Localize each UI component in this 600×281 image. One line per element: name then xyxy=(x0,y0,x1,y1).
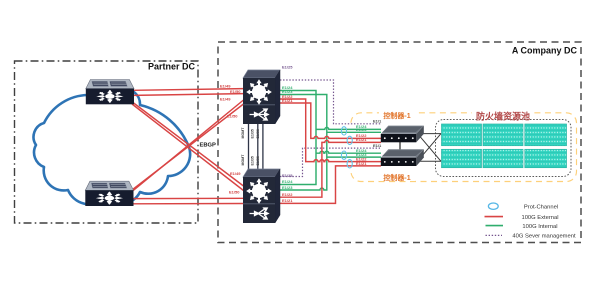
firewall pool dotted box xyxy=(436,120,572,177)
EBGP red diagonal: partner top switch to central bottom switch (line 1) xyxy=(129,100,244,187)
svg-text:MGMT: MGMT xyxy=(241,127,245,139)
svg-text:Partner DC: Partner DC xyxy=(148,62,196,72)
port labels near central top switch left xyxy=(220,84,241,195)
svg-text:控制器-1: 控制器-1 xyxy=(383,111,410,120)
svg-text:40G Sever management: 40G Sever management xyxy=(512,234,576,240)
port-channel oval on top green pair xyxy=(341,127,346,135)
svg-text:E1/49: E1/49 xyxy=(220,84,231,89)
trunk rotated labels xyxy=(241,127,260,166)
green internal trunk 1: both switches, vpc pair A xyxy=(280,91,316,185)
red external line: top switch to controller-1 upper xyxy=(280,103,381,138)
controller-2 icon xyxy=(381,149,424,166)
central bottom switch U2 xyxy=(243,169,280,223)
svg-text:100G Internal: 100G Internal xyxy=(522,224,557,230)
legend red line xyxy=(485,216,504,218)
svg-text:E1/21: E1/21 xyxy=(356,161,367,166)
svg-text:Prot-Channel: Prot-Channel xyxy=(524,204,558,210)
green branch to controller-1 (1) xyxy=(316,127,381,129)
red external line: bottom switch to controller-2 lower xyxy=(280,166,381,204)
server block row2 col3 xyxy=(525,149,567,167)
svg-text:E1/50: E1/50 xyxy=(229,190,240,195)
red external line: bottom switch to controller-1 lower xyxy=(280,140,381,197)
EBGP red link: partner bottom switch to central bottom switch (line 2) xyxy=(133,203,244,205)
port-channel oval on top red pair xyxy=(347,136,352,144)
svg-text:E1/25: E1/25 xyxy=(282,173,293,178)
pool link: controller-2 to row2 xyxy=(418,160,442,162)
green branch to controller-2 (1) xyxy=(316,151,381,153)
purple mgmt line: bottom switch to controller-2 xyxy=(280,148,380,176)
svg-text:E1/50: E1/50 xyxy=(227,114,238,119)
trunk link 1 between central switches xyxy=(248,124,250,170)
svg-text:E1/50: E1/50 xyxy=(230,89,241,94)
svg-text:MGMT: MGMT xyxy=(241,154,245,166)
svg-text:E1/35: E1/35 xyxy=(251,129,255,138)
trunk link 3 between central switches xyxy=(262,124,264,170)
EBGP red link: partner top switch to central top switch (line 2) xyxy=(133,94,244,96)
EBGP red diagonal: partner bottom switch to central top switch (line 1) xyxy=(129,100,244,194)
EBGP red diagonal: partner top switch to central bottom switch (line 2) xyxy=(132,104,244,191)
svg-text:E1/23: E1/23 xyxy=(282,185,293,190)
EBGP red diagonal: partner bottom switch to central top switch (line 2) xyxy=(132,104,244,190)
pool link: controller-1 to row2 xyxy=(418,134,442,162)
server block row1 col3 xyxy=(525,124,567,146)
cloud xyxy=(34,87,191,205)
svg-text:E1/1: E1/1 xyxy=(373,143,382,148)
server block row1 col2 xyxy=(483,124,523,146)
orange pool boundary xyxy=(351,113,577,182)
svg-text:EBGP: EBGP xyxy=(200,142,217,148)
port-channel oval on bottom red pair xyxy=(347,160,352,168)
port labels near controllers xyxy=(356,119,382,166)
svg-text:E1/23: E1/23 xyxy=(356,127,367,132)
EBGP red link: partner top switch to central top switch (line 1) xyxy=(133,89,244,91)
svg-text:E1/24: E1/24 xyxy=(282,179,293,184)
svg-text:E1/35: E1/35 xyxy=(251,156,255,165)
svg-text:E1/36: E1/36 xyxy=(256,156,260,165)
svg-text:E1/21: E1/21 xyxy=(356,137,367,142)
EBGP red link: partner bottom switch to central bottom switch (line 1) xyxy=(133,197,244,199)
svg-text:防火墙资源池: 防火墙资源池 xyxy=(476,111,530,122)
white gap behind pool title xyxy=(472,108,534,119)
central top switch U1 xyxy=(243,70,280,124)
legend purple dotted line xyxy=(486,234,503,236)
svg-text:控制器-1: 控制器-1 xyxy=(383,173,410,182)
server block row1 col1 xyxy=(442,124,482,146)
controller-2 label xyxy=(379,173,415,182)
controller-1 label xyxy=(379,111,415,120)
trunk link 2 between central switches xyxy=(257,124,259,170)
svg-text:E1/25: E1/25 xyxy=(282,65,293,70)
svg-text:E1/49: E1/49 xyxy=(220,97,231,102)
svg-text:E1/22: E1/22 xyxy=(282,192,293,197)
pool link: controller-2 to row1 xyxy=(418,134,442,162)
svg-text:A Company DC: A Company DC xyxy=(512,46,578,56)
legend green line xyxy=(486,225,504,227)
green branch to controller-1 (2) xyxy=(327,131,381,133)
Partner DC box xyxy=(15,61,199,223)
port-channel oval on bottom green pair xyxy=(341,151,346,159)
svg-text:E1/21: E1/21 xyxy=(282,98,293,103)
svg-text:E1/49: E1/49 xyxy=(230,171,241,176)
link between controllers xyxy=(399,142,401,158)
svg-text:100G External: 100G External xyxy=(521,215,558,221)
legend port-channel oval xyxy=(488,203,498,209)
A Company DC box xyxy=(218,42,581,243)
controller-1 icon xyxy=(381,126,424,143)
red external line: top switch to controller-2 upper xyxy=(280,99,381,162)
green branch to controller-2 (2) xyxy=(327,156,381,158)
port labels near central top switch right xyxy=(282,65,293,204)
green internal trunk 2: both switches, vpc pair B xyxy=(280,95,327,191)
partner bottom switch xyxy=(85,181,133,206)
partner top switch xyxy=(86,80,134,105)
svg-text:E1/36: E1/36 xyxy=(256,129,260,138)
svg-text:E1/21: E1/21 xyxy=(282,198,293,203)
purple mgmt line: top switch to controller-1 xyxy=(280,80,381,124)
pool link: controller-1 to row1 xyxy=(418,133,442,135)
server block row2 col1 xyxy=(442,149,482,167)
server block row2 col2 xyxy=(483,149,523,167)
